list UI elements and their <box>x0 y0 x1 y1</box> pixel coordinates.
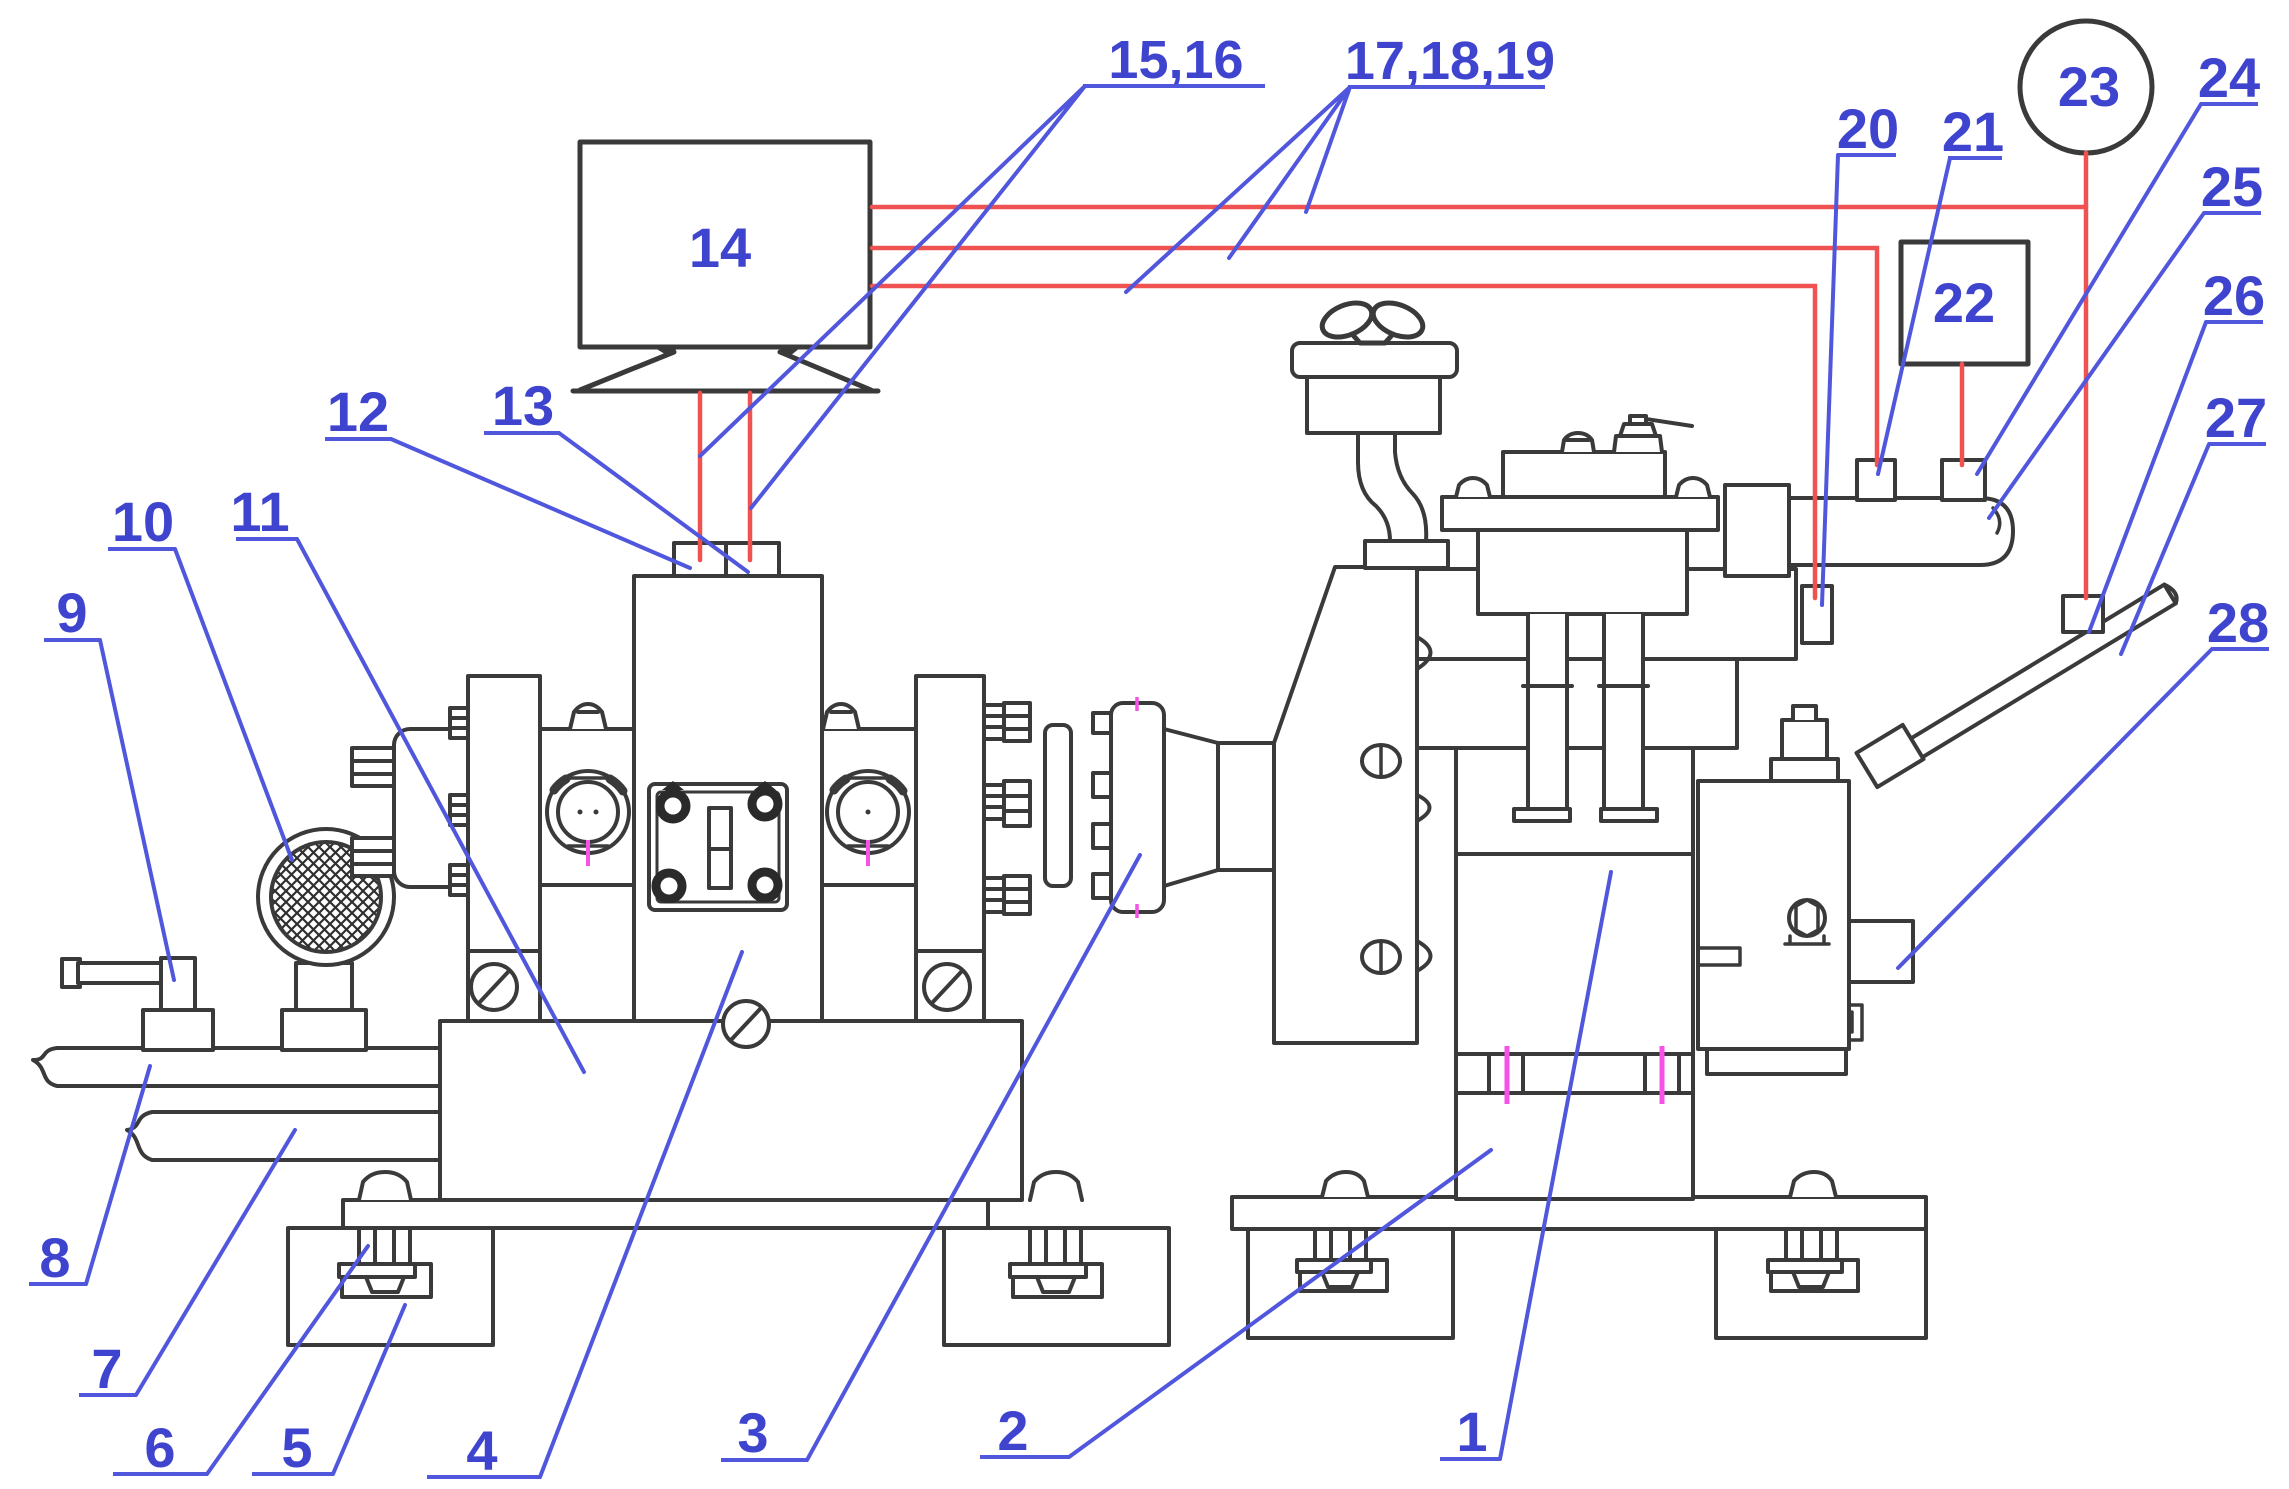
svg-text:12: 12 <box>327 380 389 443</box>
wire 17 monitor to gauge <box>872 205 2086 210</box>
tank cover plate <box>1442 497 1718 530</box>
leader 8 <box>86 1066 150 1284</box>
wire 18 monitor to sensor 21 <box>872 248 1877 465</box>
left bearing housing <box>547 771 629 853</box>
dome bolt on right beam <box>823 704 859 729</box>
lever 9 handle <box>62 959 80 987</box>
svg-text:28: 28 <box>2207 591 2269 654</box>
main column upper <box>1456 748 1693 854</box>
support bracket plate <box>1274 567 1417 1043</box>
rail 7 <box>127 1112 440 1160</box>
motor 10 pedestal <box>296 963 352 1010</box>
pump top bolt <box>1771 759 1838 781</box>
rail 8 <box>33 1048 440 1086</box>
oil cup pipe <box>1358 433 1426 541</box>
right anchor foot left <box>1248 1229 1453 1338</box>
leader 5 <box>333 1305 405 1474</box>
dome bolt on left beam <box>570 704 606 729</box>
leader 12 <box>391 439 690 568</box>
sensor block 20 <box>1802 586 1832 643</box>
svg-text:20: 20 <box>1837 97 1899 160</box>
svg-text:22: 22 <box>1933 271 1995 334</box>
leader 6 <box>207 1246 368 1474</box>
stud bolts right stanchion <box>984 705 1004 739</box>
stanchion division lines <box>468 949 984 953</box>
svg-text:13: 13 <box>492 374 554 437</box>
display circle 23 <box>2020 21 2152 153</box>
pressure sensor 21 <box>1857 460 1895 500</box>
wire box22 to sensor 24 <box>1960 364 1965 465</box>
svg-text:9: 9 <box>56 581 87 644</box>
cock valve on top box <box>1614 416 1692 452</box>
wire 15 monitor to sensor 12 <box>698 393 703 560</box>
band2 <box>1417 659 1737 748</box>
shaft to bracket <box>1218 743 1276 870</box>
anchor bolt right <box>1030 1228 1081 1264</box>
sensor block 13 <box>726 543 779 576</box>
alignment tick left <box>1505 1046 1510 1104</box>
wire gauge 23 drop to 26 <box>2084 153 2089 598</box>
leader 1 <box>1500 872 1611 1459</box>
lever collar <box>1857 725 1924 787</box>
wire 16 monitor to sensor 13 <box>748 393 753 560</box>
monitor stand <box>573 352 878 391</box>
leader 20 <box>1822 155 1838 605</box>
coupling flange plate <box>1045 725 1071 886</box>
left bearing beam <box>540 729 634 885</box>
leader 4 <box>540 952 742 1477</box>
coupling disc 3 <box>1111 703 1164 912</box>
leader 10 <box>175 549 292 860</box>
wire 19 monitor to block 20 <box>872 286 1815 598</box>
base thin plate <box>343 1200 988 1228</box>
lever 9 post <box>161 958 195 1010</box>
dome bolt on plate left <box>359 1172 411 1200</box>
svg-text:2: 2 <box>997 1399 1028 1462</box>
hand lever 27 <box>1866 585 2175 785</box>
coupling studs 3 <box>1093 713 1119 733</box>
signal box 22 <box>1901 242 2028 364</box>
monitor box 14 <box>580 142 870 347</box>
alignment tick right <box>1660 1046 1665 1104</box>
bolted plate on column <box>649 784 787 910</box>
svg-text:14: 14 <box>689 216 751 279</box>
outlet block 28 <box>1849 921 1913 982</box>
column keyed strip <box>1456 1054 1693 1093</box>
svg-text:21: 21 <box>1942 100 2004 163</box>
svg-text:1: 1 <box>1456 1400 1487 1463</box>
svg-text:26: 26 <box>2203 264 2265 327</box>
plate bolts <box>660 793 686 819</box>
svg-text:24: 24 <box>2198 46 2260 109</box>
leader 26 <box>2089 322 2206 632</box>
svg-text:17,18,19: 17,18,19 <box>1345 31 1555 91</box>
bolt circle column foot <box>723 1001 769 1047</box>
right base plate 2 <box>1232 1197 1926 1229</box>
base block 11 <box>440 1021 1022 1200</box>
centering tick bearing left <box>588 840 868 866</box>
svg-text:23: 23 <box>2058 55 2120 118</box>
pump base <box>1707 1049 1846 1074</box>
tie rod left <box>1528 614 1567 809</box>
motor 10 body <box>258 829 394 965</box>
oil cup cap <box>1292 343 1457 377</box>
leader 15,16 <box>700 86 1085 508</box>
main column mid 1 <box>1456 854 1693 1054</box>
tie rod right <box>1604 614 1643 809</box>
leader 17,18,19 <box>1126 87 1350 292</box>
band1 under tank <box>1417 569 1796 659</box>
svg-text:4: 4 <box>466 1419 497 1482</box>
tank body <box>1478 530 1687 614</box>
cap on bracket <box>1365 541 1448 568</box>
bolt circle left stanchion foot <box>471 964 517 1010</box>
right bearing housing <box>827 771 909 853</box>
right anchor foot right <box>1716 1229 1926 1338</box>
leader 25 <box>1989 213 2204 518</box>
svg-text:25: 25 <box>2201 155 2263 218</box>
svg-text:7: 7 <box>91 1337 122 1400</box>
centering tick coupling disc <box>1135 697 1139 918</box>
right bearing beam <box>820 729 916 885</box>
dome bolt right machine right <box>1790 1172 1836 1197</box>
lever link block 26 <box>2063 596 2103 632</box>
svg-text:11: 11 <box>230 480 289 543</box>
leader 21 <box>1878 158 1950 474</box>
lever 9 base <box>143 1010 213 1050</box>
manifold pipe 25 <box>1789 498 2013 565</box>
leader 27 <box>2121 444 2209 654</box>
svg-text:15,16: 15,16 <box>1108 30 1243 90</box>
svg-text:3: 3 <box>737 1401 768 1464</box>
leader 24 <box>1977 104 2201 474</box>
cover dome bolts <box>1456 478 1490 497</box>
leader 9 <box>100 640 174 980</box>
leader 3 <box>807 855 1140 1460</box>
bolt circle right stanchion foot <box>924 964 970 1010</box>
anchor foot left (6) <box>288 1228 493 1345</box>
motor flange studs <box>352 748 394 786</box>
dome bolt right machine left <box>1322 1172 1368 1197</box>
leader 2 <box>1069 1150 1491 1457</box>
small bolt on top box <box>1562 433 1594 452</box>
leader 7 <box>136 1130 295 1395</box>
coupling studs on stanchion <box>1004 703 1030 741</box>
leader 13 <box>559 433 748 572</box>
bracket bolts <box>1362 745 1400 777</box>
oil cup body <box>1307 377 1440 433</box>
svg-text:5: 5 <box>281 1416 312 1479</box>
motor output flange <box>394 729 470 887</box>
dome bolt on plate right <box>1030 1172 1082 1200</box>
pump side bolt <box>1789 900 1825 936</box>
left stanchion <box>468 676 540 1021</box>
stud bolts left stanchion <box>450 708 468 738</box>
plate slot <box>709 808 731 888</box>
svg-text:10: 10 <box>112 490 174 553</box>
tank top box <box>1503 452 1665 497</box>
svg-text:8: 8 <box>39 1226 70 1289</box>
column lower <box>1456 1093 1693 1199</box>
anchor foot right <box>944 1228 1169 1345</box>
leader 11 <box>297 539 584 1072</box>
coupling cone <box>1164 729 1218 886</box>
anchor bolt left (5) <box>359 1228 410 1264</box>
svg-text:27: 27 <box>2205 386 2267 449</box>
center column 4 <box>634 576 822 1021</box>
bracket side nubs <box>1417 637 1431 971</box>
sensor block 12 <box>674 543 726 576</box>
leader 28 <box>1898 649 2212 968</box>
riser block <box>1725 485 1789 576</box>
right stanchion <box>916 676 984 1021</box>
pressure sensor 24 <box>1942 460 1985 500</box>
pump body <box>1698 781 1849 1049</box>
wing nut on oil cup <box>1317 296 1376 343</box>
svg-text:6: 6 <box>144 1416 175 1479</box>
